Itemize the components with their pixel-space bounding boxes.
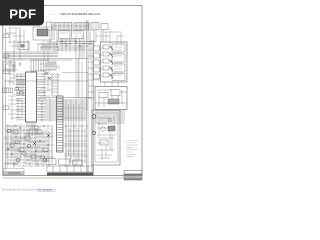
IC U1 [33,27,52,40]
junction dots [11,125,48,160]
resistor R9 [20,92,24,95]
capacitor C1 [3,62,15,71]
capacitor C4 [37,130,42,134]
svg-text:PDF: PDF [9,6,36,21]
connector ladder CN2 [52,74,58,96]
resistor R7 [43,148,48,152]
svg-text:hifi-manuals.nl: hifi-manuals.nl [38,188,56,192]
parts list text [127,141,139,157]
PDF badge [0,0,44,26]
title block table [124,170,142,180]
connector J2 [53,23,72,31]
note table bottom left [4,169,25,175]
connector J5 [101,24,108,30]
connector J3 [74,23,89,31]
ground G3 [13,162,16,166]
block box upper right [101,42,128,87]
transistor Q1 [92,115,96,119]
left rail wire [6,28,21,170]
IC U4 [31,60,46,71]
section box bottom right [92,110,120,165]
ground G2 [47,58,50,62]
wires mid left [6,28,92,122]
transistor Q8 [16,158,19,161]
resistor network RN1 [3,88,13,93]
ground G1 [19,62,22,66]
wires in section box [97,115,116,160]
diode D5 [48,77,51,80]
diode D1 [33,142,36,145]
capacitor C5 [108,126,115,131]
resistor R6 [31,155,36,159]
bottom left net [4,124,88,166]
fan lines right [95,111,125,123]
capacitor C3 [25,136,30,140]
capacitor C9 [34,126,38,129]
small box B1 [46,159,56,165]
ground G4 [37,162,40,166]
dark bus bar [47,173,93,176]
resistor R1 [3,34,9,38]
diode D4 [45,72,48,75]
small box B3 [73,160,83,165]
relay K5 [94,74,100,79]
connector J1 [47,22,52,30]
resistor R10 [40,156,45,159]
wires right of bus [88,29,124,98]
resistor R2 [3,54,9,58]
IC U5 [18,42,29,50]
transistor Q5 [7,129,10,132]
transistor Q4 [108,118,112,122]
long connector strip [47,166,93,172]
transistor Q2 [101,127,105,131]
small box B2 [59,159,71,165]
relay K1 [94,46,100,51]
resistor R5 [19,148,24,152]
diode D2 [47,134,50,137]
DIP bottom pin drops [24,122,40,136]
ladder strip CN3 [57,96,64,152]
resistor R3 [3,70,9,74]
sheet title text [48,12,101,16]
svg-text:———: ——— [48,12,57,16]
resistor R11 [15,141,20,144]
extra lower-left wiring [4,124,52,168]
long wire A [4,80,88,82]
IC U3 DIP [16,72,46,122]
capacitor C7 [10,144,14,147]
IC U2 [59,31,84,39]
relay K4 [94,67,100,72]
resistor R8 [15,88,19,91]
wires lower mid verticals [64,34,86,166]
wire net top [37,40,96,50]
header H1 [48,62,56,70]
resistor R4 [3,106,9,110]
junction dots top net [56,41,90,47]
long wire B [38,97,92,99]
relay K2 [94,53,100,58]
svg-text:CIRCUIT DIAGRAMS GR2.4 AA: CIRCUIT DIAGRAMS GR2.4 AA [60,12,101,16]
vertical bus [87,20,94,176]
wire drops from connectors [50,30,103,61]
horizontal bus [4,52,88,60]
wires beside DIP [12,74,26,96]
capacitor C8 [22,152,26,155]
capacitor C6 [100,140,108,145]
diode D3 [7,148,10,151]
transistor Q6 [27,144,30,147]
pin fan bus [46,100,88,120]
block box mid right [95,87,127,110]
relay K3 [94,60,100,65]
transistor Q3 [92,131,96,135]
transistor Q7 [43,158,46,161]
capacitor C2 [13,130,18,134]
footer note [2,188,56,192]
connector J4 [91,23,99,31]
